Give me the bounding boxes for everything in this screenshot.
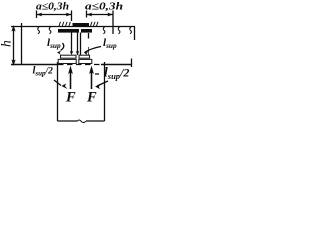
svg-text:F: F <box>65 90 76 106</box>
svg-text:h: h <box>0 40 14 47</box>
svg-text:a≤0,3h: a≤0,3h <box>36 2 69 13</box>
svg-text:a≤0,3h: a≤0,3h <box>85 2 123 13</box>
svg-text:F: F <box>86 90 97 106</box>
